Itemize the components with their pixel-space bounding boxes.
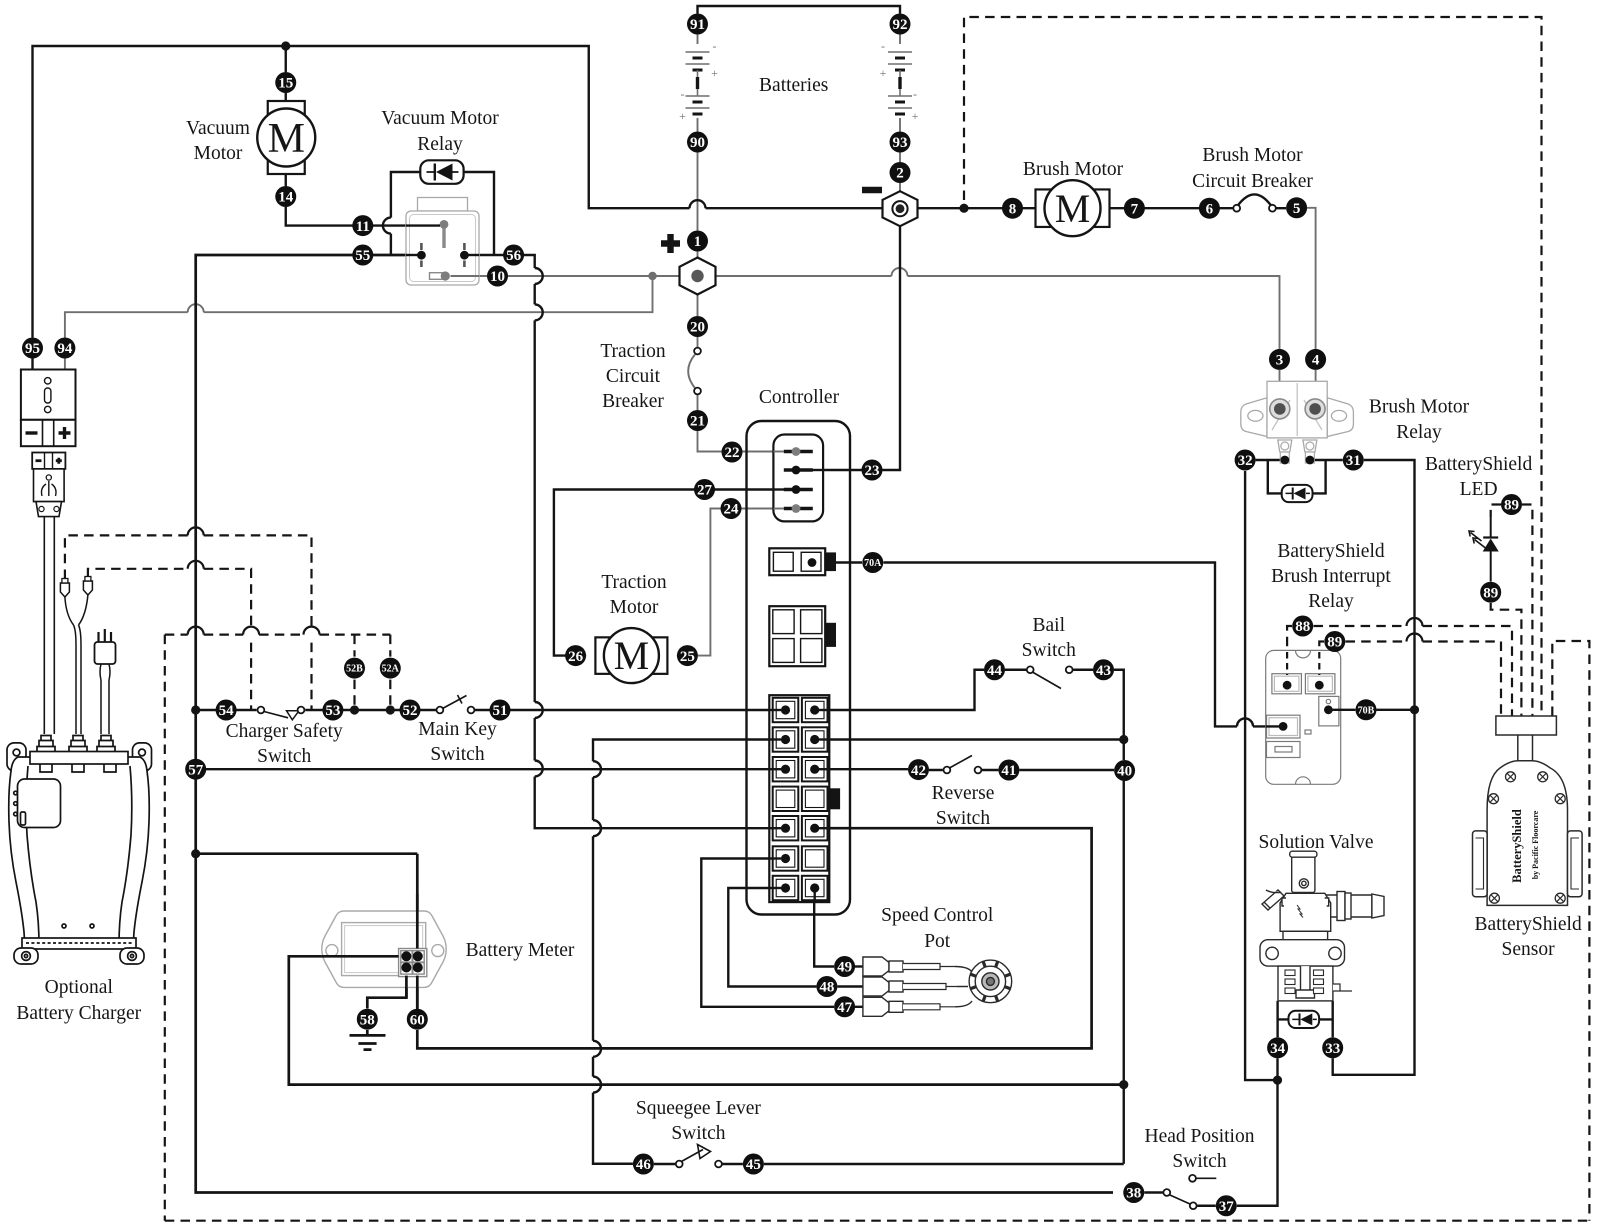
svg-text:47: 47	[837, 1000, 853, 1016]
svg-text:Traction: Traction	[600, 341, 666, 362]
node 49	[834, 956, 855, 977]
svg-text:11: 11	[356, 219, 370, 235]
svg-text:+: +	[912, 109, 919, 123]
node 7	[1124, 198, 1145, 219]
wire solution valve leads	[1278, 1001, 1333, 1037]
svg-text:Vacuum Motor: Vacuum Motor	[381, 108, 499, 129]
svg-text:Reverse: Reverse	[932, 783, 995, 804]
wire solution valve diode link	[1278, 1018, 1333, 1020]
wire overlays across meter plate	[322, 955, 399, 958]
wire dashed bottom border	[165, 1220, 1590, 1222]
node 14	[275, 186, 296, 207]
wire battery column 93 (gray)	[899, 35, 901, 193]
wire overlays inside vacuum relay	[406, 224, 440, 226]
svg-text:42: 42	[911, 763, 926, 779]
wire hexagon2 down to node 23 and controller pin2	[796, 225, 900, 470]
controller row 5	[773, 816, 799, 840]
wire vacuum motor 14 to relay pin 11	[286, 174, 444, 226]
junction 70B tap	[1410, 705, 1419, 714]
svg-text:Relay: Relay	[417, 134, 463, 155]
svg-text:45: 45	[746, 1157, 761, 1173]
vacuum motor relay body	[418, 198, 468, 212]
node 4	[1305, 349, 1326, 370]
wire node 55 line and long left vertical to node 38	[196, 255, 1113, 1193]
svg-text:Circuit Breaker: Circuit Breaker	[1192, 171, 1313, 192]
svg-text:31: 31	[1346, 453, 1361, 469]
traction motor M	[595, 637, 667, 674]
wire squeegee lever switch line	[654, 1163, 1124, 1165]
svg-text:33: 33	[1325, 1041, 1340, 1057]
svg-text:94: 94	[57, 341, 73, 357]
wire node 37 to solution valve junction	[1197, 1058, 1277, 1205]
wire traction breaker column (gray)	[697, 337, 699, 410]
contact traction breaker top	[694, 348, 701, 355]
solution valve	[1260, 851, 1384, 1001]
svg-text:25: 25	[680, 649, 695, 665]
wire node 40 vertical down to squeegee line	[1123, 740, 1125, 1164]
svg-text:-: -	[913, 87, 917, 101]
svg-text:Switch: Switch	[430, 744, 484, 765]
svg-text:91: 91	[690, 17, 705, 33]
node 26	[565, 645, 586, 666]
wire brush relay diode loop	[1268, 460, 1326, 493]
node 56	[503, 245, 524, 266]
svg-text:26: 26	[568, 649, 584, 665]
node 58	[357, 1009, 378, 1030]
junction 52B tap	[350, 705, 359, 714]
wire controller row7 left to node 48	[728, 888, 816, 987]
wire reverse switch line	[814, 768, 1114, 771]
svg-text:Relay: Relay	[1308, 591, 1354, 612]
svg-text:3: 3	[1276, 353, 1284, 369]
wire overlays into interrupt relay	[1328, 709, 1341, 711]
wire node 49 to pot terminal	[855, 965, 863, 967]
svg-text:6: 6	[1206, 201, 1214, 217]
vacuum relay pin 55	[420, 243, 423, 267]
vacuum relay diode	[420, 160, 463, 184]
wire vacuum relay diode loop	[391, 172, 420, 255]
batteryshield brush interrupt relay body	[1266, 650, 1341, 784]
wire dashed 52B vertical	[353, 635, 355, 710]
svg-text:Optional: Optional	[45, 977, 114, 998]
node 31	[1343, 450, 1364, 471]
svg-text:M: M	[614, 633, 650, 678]
contact main key switch left	[437, 707, 444, 714]
svg-text:Battery Meter: Battery Meter	[466, 940, 575, 961]
contact bail switch left	[1027, 666, 1034, 673]
battery B2	[888, 52, 912, 58]
wire squeegee blade	[681, 1145, 711, 1163]
charger cord pair	[44, 517, 54, 734]
wire battery column 91 (gray)	[697, 35, 699, 317]
optional battery charger	[7, 736, 152, 965]
junction meter TL wire tap	[1119, 1080, 1128, 1089]
svg-text:95: 95	[25, 341, 40, 357]
wire dashed node 88 to relay pin	[1287, 626, 1292, 678]
svg-text:Vacuum: Vacuum	[186, 118, 250, 139]
svg-text:89: 89	[1504, 498, 1519, 514]
svg-text:+: +	[679, 109, 686, 123]
controller row 2	[773, 727, 799, 751]
svg-text:89: 89	[1327, 635, 1342, 651]
node 15	[275, 72, 296, 93]
svg-text:52B: 52B	[346, 664, 363, 675]
svg-text:56: 56	[506, 248, 522, 264]
svg-text:41: 41	[1001, 763, 1016, 779]
svg-text:88: 88	[1295, 619, 1310, 635]
brush relay diode	[1282, 485, 1313, 502]
wire brush breaker arc	[1238, 194, 1270, 204]
wire head aux contact	[1197, 1177, 1217, 1179]
wire battery meter 58 ground	[367, 968, 406, 1036]
wire relay right pin to node 56 corner down to controller pin5	[464, 255, 534, 268]
wire 70A route to interrupt relay	[812, 563, 1237, 727]
svg-text:70B: 70B	[1358, 705, 1375, 716]
wire controller row2 right to junction	[814, 738, 1124, 740]
svg-text:-: -	[713, 39, 717, 53]
node 70B	[1356, 699, 1377, 720]
svg-text:Head Position: Head Position	[1145, 1126, 1255, 1147]
wire dashed charger plug B	[88, 569, 188, 577]
battery B1	[686, 52, 710, 58]
node 53	[322, 700, 343, 721]
minus sign	[862, 187, 882, 193]
node 46	[633, 1154, 654, 1175]
crimp terminal Y-wires	[65, 595, 88, 625]
wire node 95 stub to connector	[31, 356, 33, 370]
node 89	[1324, 631, 1345, 652]
wire dashed LED top 89 to anode	[1491, 505, 1501, 518]
controller pin 508.5	[784, 507, 813, 510]
node 6	[1199, 198, 1220, 219]
wire node 31 right and down to node 33	[1333, 460, 1415, 1075]
controller row 1	[773, 698, 799, 722]
node 11	[352, 215, 373, 236]
contact charger safety switch left	[258, 707, 265, 714]
node 23	[862, 460, 883, 481]
svg-text:37: 37	[1219, 1199, 1235, 1215]
svg-text:52: 52	[403, 703, 418, 719]
node 5	[1286, 197, 1307, 218]
node 89	[1480, 582, 1501, 603]
LED arrows	[1469, 531, 1482, 541]
node 1	[687, 231, 708, 252]
junction node 34 branch	[1273, 1076, 1282, 1085]
svg-text:10: 10	[490, 269, 505, 285]
svg-text:21: 21	[690, 414, 705, 430]
contact head switch left	[1163, 1189, 1170, 1196]
wire vacuum motor top	[285, 46, 287, 102]
node 8	[1002, 198, 1023, 219]
node 88	[1292, 616, 1313, 637]
svg-text:40: 40	[1117, 764, 1132, 780]
svg-text:Switch: Switch	[257, 746, 311, 767]
svg-text:60: 60	[410, 1012, 425, 1028]
svg-text:58: 58	[360, 1012, 375, 1028]
wire node 47 to pot terminal	[855, 1006, 863, 1008]
solution valve diode	[1289, 1011, 1320, 1028]
wire dashed node 89 to relay pin	[1319, 642, 1324, 679]
node 92	[890, 14, 911, 35]
wire main key switch blade	[443, 695, 467, 709]
wire node 94 stub to connector	[64, 356, 66, 370]
svg-text:Traction: Traction	[601, 572, 667, 593]
node 52	[400, 700, 421, 721]
svg-text:Brush Motor: Brush Motor	[1023, 159, 1124, 180]
svg-text:Speed Control: Speed Control	[881, 905, 994, 926]
vacuum motor M	[268, 101, 305, 174]
svg-text:8: 8	[1009, 201, 1017, 217]
node 25	[677, 645, 698, 666]
node 89	[1501, 494, 1522, 515]
svg-text:Squeegee Lever: Squeegee Lever	[636, 1098, 762, 1119]
plus sign	[661, 234, 680, 253]
svg-text:27: 27	[697, 483, 713, 499]
batteryshield sensor	[1473, 716, 1583, 905]
node 3	[1269, 349, 1290, 370]
wire bail switch route	[814, 670, 1124, 740]
svg-text:Bail: Bail	[1033, 615, 1066, 636]
wire dashed sensor 6th pin to right border	[1552, 641, 1589, 1221]
wire head position switch line	[1144, 1191, 1163, 1193]
svg-text:Pot: Pot	[924, 931, 951, 952]
node 94	[54, 338, 75, 359]
svg-text:48: 48	[819, 980, 834, 996]
wire node 32 to relay pin	[1256, 459, 1285, 461]
wire relay pin to node 31	[1310, 459, 1343, 461]
node 70A	[862, 552, 883, 573]
charger receptacle connector	[21, 370, 76, 420]
wire node 24 to traction motor 25 (gray)	[677, 509, 796, 656]
controller 4-pin connector	[773, 435, 823, 522]
contact traction breaker bottom	[694, 388, 701, 395]
controller row 4	[773, 787, 799, 811]
node 47	[834, 996, 855, 1017]
svg-text:Breaker: Breaker	[602, 391, 664, 412]
wire controller pin2row left loop	[593, 740, 784, 1164]
wire battery meter TL to junction on node40 vertical	[289, 956, 1124, 1084]
controller main 2x7 connector	[769, 695, 829, 902]
wire 57 line to controller pin3row	[196, 768, 784, 770]
junction hexagon 1 branch	[648, 272, 656, 280]
wire node 3 to relay terminal (gray)	[1279, 370, 1281, 402]
AC plug	[95, 642, 116, 664]
crimp terminal B	[83, 581, 92, 595]
junction battery meter tap	[191, 849, 200, 858]
wire top-left loop node95 to brush line	[33, 46, 690, 338]
svg-text:22: 22	[725, 445, 740, 461]
wire dashed LED bottom 89 to sensor	[1491, 603, 1522, 716]
brush relay bottom pins	[1278, 440, 1292, 452]
node 32	[1235, 450, 1256, 471]
svg-text:Circuit: Circuit	[606, 366, 661, 387]
controller row 3	[773, 757, 799, 781]
hexagon terminal node 2 (-)	[883, 191, 918, 226]
contact brush breaker left	[1233, 205, 1240, 212]
svg-text:Switch: Switch	[671, 1123, 725, 1144]
node 52B	[344, 658, 365, 679]
brush motor relay	[1241, 381, 1354, 438]
wire node 32 down to junction	[1245, 471, 1277, 1080]
wire dashed 52A vertical	[389, 635, 391, 710]
node 33	[1322, 1037, 1343, 1058]
svg-text:54: 54	[219, 703, 235, 719]
svg-text:32: 32	[1238, 453, 1253, 469]
wire dashed LED top 89 to sensor	[1522, 505, 1532, 717]
wire node 27 to controller pin3 / traction motor 26	[554, 490, 796, 656]
node 22	[722, 442, 743, 463]
svg-text:Brush Interrupt: Brush Interrupt	[1271, 566, 1391, 587]
svg-text:Batteries: Batteries	[759, 75, 828, 96]
svg-text:20: 20	[690, 320, 705, 336]
node 52A	[380, 658, 401, 679]
svg-text:-: -	[681, 87, 685, 101]
svg-text:2: 2	[896, 166, 904, 182]
svg-text:Switch: Switch	[1172, 1151, 1226, 1172]
svg-text:55: 55	[355, 248, 370, 264]
wire charger safety switch blade	[264, 712, 288, 718]
contact charger safety switch right	[298, 707, 305, 714]
svg-text:Main Key: Main Key	[418, 719, 497, 740]
wire dashed battery-to-sensor top route	[964, 17, 1542, 716]
svg-text:23: 23	[865, 463, 880, 479]
wire main key switch line	[196, 709, 784, 711]
junction bail switch tap	[1119, 735, 1128, 744]
node 37	[1216, 1195, 1237, 1216]
svg-text:M: M	[268, 116, 305, 162]
svg-text:52A: 52A	[382, 664, 400, 675]
svg-text:Controller: Controller	[759, 387, 840, 408]
svg-text:92: 92	[893, 17, 908, 33]
svg-text:1: 1	[694, 234, 702, 250]
wire traction circuit breaker arc	[688, 355, 695, 389]
wire node 4 to relay terminal (gray)	[1315, 370, 1317, 402]
svg-text:+: +	[880, 66, 887, 80]
svg-text:5: 5	[1293, 201, 1301, 217]
wire reverse blade	[949, 756, 973, 769]
controller row 6	[773, 846, 799, 870]
controller body	[747, 421, 851, 915]
node 20	[687, 316, 708, 337]
speed control pot	[863, 957, 1012, 1016]
svg-text:Motor: Motor	[194, 143, 243, 164]
controller pin 489.5	[784, 488, 813, 491]
wire brush motor segment	[1109, 207, 1232, 209]
svg-text:BatteryShield: BatteryShield	[1425, 454, 1532, 475]
node 2	[890, 162, 911, 183]
node 45	[743, 1154, 764, 1175]
node 54	[216, 700, 237, 721]
contact squeegee switch left	[676, 1161, 683, 1168]
node 95	[22, 338, 43, 359]
contact squeegee switch right	[715, 1161, 722, 1168]
svg-text:Switch: Switch	[936, 808, 990, 829]
controller pin 451.5	[784, 450, 813, 453]
node 93	[890, 132, 911, 153]
controller pin 470	[784, 468, 813, 471]
wire node 5 to node 4 (gray)	[1307, 208, 1316, 349]
svg-text:LED: LED	[1460, 479, 1498, 500]
svg-text:+: +	[711, 66, 718, 80]
contact head switch right	[1190, 1202, 1197, 1209]
svg-text:7: 7	[1131, 201, 1139, 217]
battery meter plate	[322, 911, 446, 987]
controller 70A block	[769, 548, 825, 575]
svg-text:Solution Valve: Solution Valve	[1258, 832, 1373, 853]
svg-text:-: -	[881, 39, 885, 53]
node 91	[687, 14, 708, 35]
svg-text:BatteryShield: BatteryShield	[1474, 914, 1581, 935]
svg-text:44: 44	[987, 663, 1003, 679]
node 90	[687, 132, 708, 153]
wire hop arcs on pin2row vertical	[593, 761, 601, 777]
node 41	[998, 760, 1019, 781]
wire node10 line hexagon1 to node3 (gray)	[445, 275, 892, 277]
svg-text:24: 24	[724, 502, 740, 518]
svg-text:53: 53	[325, 703, 340, 719]
wire dashed horizontal H3 to 52B/52A	[165, 633, 188, 635]
charger cord clamp	[36, 502, 62, 517]
node 57	[185, 759, 206, 780]
svg-text:90: 90	[690, 135, 705, 151]
wire 70B line	[1328, 709, 1414, 711]
node 21	[687, 410, 708, 431]
vacuum relay pin 56	[463, 243, 466, 267]
wire node 94 riser (gray)	[65, 312, 188, 337]
svg-text:49: 49	[837, 960, 852, 976]
svg-text:43: 43	[1096, 663, 1111, 679]
contact reverse switch left	[944, 767, 951, 774]
wire overlays into controller cells	[769, 709, 781, 711]
contact brush breaker right	[1269, 205, 1276, 212]
controller row 7	[773, 876, 799, 900]
junction 52A tap	[386, 705, 395, 714]
batteryshield LED	[1490, 517, 1492, 537]
svg-text:M: M	[1055, 186, 1091, 231]
wire controller row6 to node 47	[701, 859, 834, 1007]
svg-text:51: 51	[493, 703, 508, 719]
node 40	[1114, 760, 1135, 781]
crimp terminal A	[60, 583, 69, 597]
svg-text:4: 4	[1312, 353, 1320, 369]
node 48	[816, 976, 837, 997]
svg-text:Switch: Switch	[1022, 640, 1076, 661]
vacuum relay pin 10	[430, 273, 443, 280]
svg-text:Battery Charger: Battery Charger	[16, 1003, 141, 1024]
node 42	[908, 759, 929, 780]
svg-text:38: 38	[1126, 1186, 1141, 1202]
node 10	[487, 266, 508, 287]
node 34	[1267, 1037, 1288, 1058]
svg-text:14: 14	[278, 190, 294, 206]
contact main key switch right	[468, 707, 475, 714]
svg-text:Motor: Motor	[610, 597, 659, 618]
vacuum relay pin 11	[442, 228, 445, 248]
svg-text:Brush Motor: Brush Motor	[1369, 397, 1470, 418]
node 43	[1093, 659, 1114, 680]
junction dashed battery route tap	[959, 204, 968, 213]
node 44	[984, 659, 1005, 680]
wire dashed from node 88 to sensor	[1314, 625, 1407, 627]
svg-text:15: 15	[278, 76, 293, 92]
svg-text:70A: 70A	[864, 558, 882, 569]
junction key switch line tap	[191, 705, 200, 714]
wire node 21 to node 22 to controller pin1 (gray)	[698, 431, 797, 452]
svg-text:34: 34	[1270, 1041, 1286, 1057]
wire battery meter TR riser	[196, 852, 418, 855]
wire dashed from node 89 to sensor	[1346, 640, 1407, 642]
svg-text:BatteryShield: BatteryShield	[1277, 541, 1384, 562]
